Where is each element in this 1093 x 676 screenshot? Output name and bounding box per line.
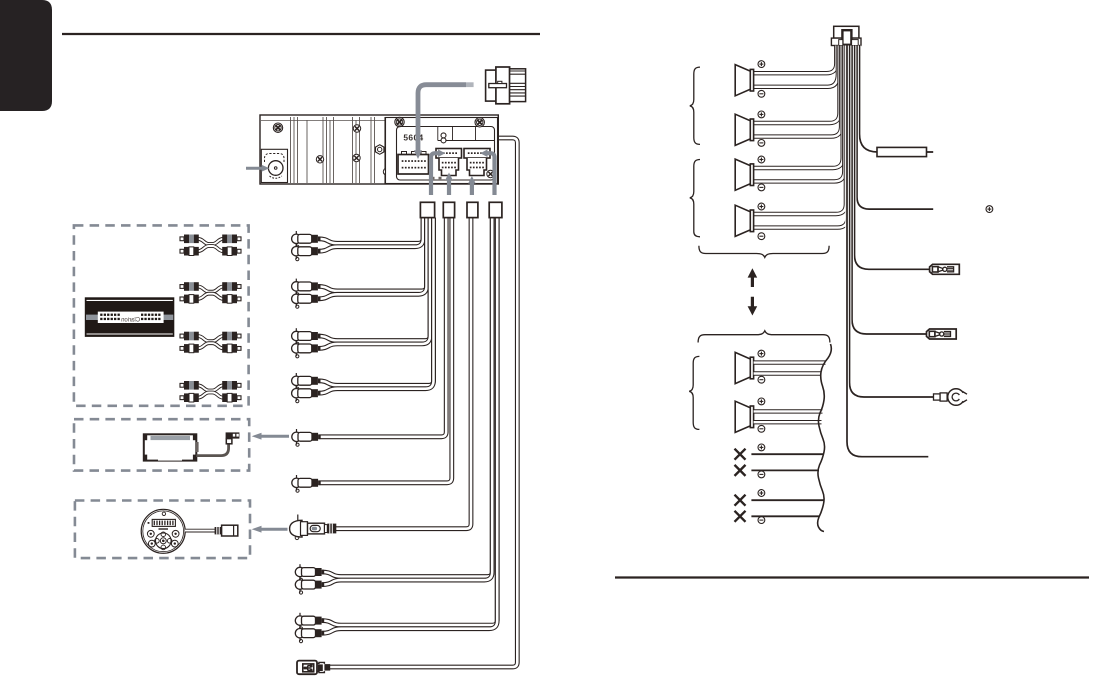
- accessory wire to spade 1: [855, 46, 930, 270]
- RCA extension cable (male-male pair): [198, 287, 224, 292]
- top brace of lower section: [698, 331, 830, 343]
- ship harness connector: [486, 70, 497, 101]
- wire: FL speaker -: [754, 46, 838, 87]
- minus terminal symbol: [758, 425, 765, 432]
- dashed box: amplifier option: [74, 225, 249, 405]
- minus terminal symbol: [758, 140, 765, 147]
- gray arrow to antenna jack: [246, 165, 269, 172]
- dashed box: sat receiver option: [74, 419, 249, 470]
- gray arrow to sat receiver box: [252, 433, 289, 440]
- single RCA jack (sat audio): [319, 218, 447, 437]
- ring terminal: [934, 394, 941, 400]
- camera harness connector box: [489, 202, 502, 217]
- remote cable and connector: [185, 529, 215, 533]
- break wavy line: [818, 344, 832, 532]
- plus terminal symbol: [758, 156, 765, 163]
- gray arrow up into aux A bottom: [447, 179, 451, 195]
- gray arrow into aux connector B (from right): [487, 153, 495, 195]
- hex nut: [376, 145, 384, 155]
- wire: FL speaker +: [754, 46, 837, 74]
- USB connector: [297, 661, 317, 675]
- slim plug jack (antenna/aux): [319, 218, 452, 483]
- ground wire: [850, 46, 934, 398]
- plus terminal symbol: [758, 350, 765, 357]
- wire: lower speaker 1 -: [754, 371, 822, 375]
- page tab (black corner block): [0, 0, 52, 111]
- minus terminal symbol: [758, 376, 765, 383]
- wire: RR speaker +: [754, 46, 846, 215]
- fuse wire: [860, 46, 878, 153]
- wire: RL speaker -: [754, 46, 845, 182]
- svg-text:5604: 5604: [403, 133, 423, 143]
- dashed box: remote control option: [75, 501, 250, 559]
- sat receiver cable and plug: [196, 444, 228, 456]
- RCA pair jack (camera in): [322, 218, 492, 577]
- RCA pair jack FL/FR (to 16P box): [318, 218, 423, 244]
- up arrow: [748, 268, 758, 287]
- bottom-right rule: [615, 576, 1089, 578]
- fuse lead: [927, 151, 934, 153]
- down arrow: [748, 297, 758, 316]
- wire: RR speaker -: [754, 46, 848, 228]
- left brace speakers 3-4: [690, 160, 700, 237]
- RCA extension cable (male-male pair): [198, 239, 224, 244]
- rear right speaker: [735, 205, 753, 236]
- RCA pair jack Sub: [318, 218, 433, 386]
- wire: lower speaker 1 +: [754, 360, 826, 364]
- unused wire +: [751, 453, 824, 455]
- unused wire -: [751, 469, 819, 471]
- top rule: [62, 33, 540, 35]
- antenna jack panel: [261, 149, 287, 182]
- remote harness connector box: [467, 202, 478, 217]
- wire: RL speaker +: [754, 46, 843, 169]
- wire: lower speaker 2 +: [754, 409, 823, 413]
- spade terminal 1: [930, 264, 960, 274]
- RCA harness connector box: [420, 202, 434, 217]
- +12V memory wire: [857, 46, 933, 210]
- plus terminal symbol: [758, 111, 765, 118]
- spade terminal 2: [927, 329, 957, 339]
- plus terminal symbol: [758, 61, 765, 68]
- front left speaker: [735, 65, 753, 96]
- wire: lower speaker 2 -: [754, 420, 822, 424]
- unused wire -: [751, 515, 819, 517]
- main 16P connector: [402, 152, 407, 156]
- unused wire +: [751, 499, 824, 501]
- minus terminal symbol: [758, 184, 765, 191]
- plus terminal symbol: [758, 398, 765, 405]
- RCA extension cable (male-male pair): [198, 336, 224, 341]
- aux connector B: [464, 149, 490, 159]
- speaker harness connector (top): [834, 26, 859, 38]
- antenna jack: [268, 161, 283, 176]
- gray arrow to remote box: [252, 526, 288, 533]
- USB pigtail cable (long wire to rear port): [330, 138, 517, 667]
- big DIN plug (remote connector): [336, 218, 471, 529]
- RCA pair jack (video out): [322, 218, 497, 625]
- aux harness connector box: [443, 202, 454, 217]
- RCA pair jack Zone2: [318, 218, 430, 341]
- amp remote wire (open end): [847, 46, 928, 457]
- RCA extension cable (male-male pair): [198, 385, 224, 390]
- amplifier unit: [85, 297, 175, 337]
- marine remote control: [141, 509, 185, 553]
- wire: FR speaker -: [754, 46, 842, 137]
- lower option speaker 2: [735, 401, 753, 432]
- rear left speaker: [735, 159, 753, 190]
- minus terminal symbol: [758, 90, 765, 97]
- recessed connector panel: [386, 118, 498, 184]
- gray arrow into aux connector A: [431, 153, 439, 195]
- fuse holder: [877, 147, 927, 156]
- plus terminal symbol: [758, 203, 765, 210]
- minus terminal symbol: [758, 233, 765, 240]
- screws: [273, 123, 282, 132]
- aux connector A: [436, 149, 462, 159]
- gray leader: ship harness to main connector: [418, 85, 466, 151]
- RCA pair jack RL/RR: [318, 218, 426, 291]
- lower option speaker 1: [735, 352, 753, 383]
- wire: FR speaker +: [754, 46, 840, 124]
- head unit rear panel: [260, 115, 498, 184]
- illumination wire to spade 2: [852, 46, 927, 335]
- rear USB/remote port circles: [441, 133, 446, 138]
- bottom brace of top section: [699, 246, 829, 258]
- left brace lower speakers: [689, 356, 699, 429]
- gray arrow up into aux B bottom: [470, 183, 474, 196]
- plus symbol near +12V wire: [986, 206, 993, 213]
- left brace speakers 1-2: [690, 67, 700, 144]
- svg-text:Clarion: Clarion: [121, 317, 140, 323]
- sat receiver box: [144, 434, 197, 460]
- front right speaker: [735, 114, 753, 145]
